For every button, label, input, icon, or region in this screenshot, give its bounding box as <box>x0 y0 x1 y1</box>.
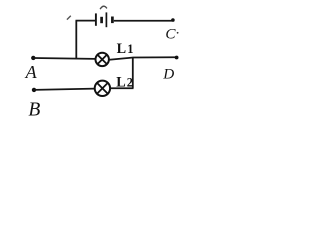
svg-text:L1: L1 <box>117 41 134 57</box>
battery plate: short thick plate 4 <box>111 17 114 24</box>
svg-text:B: B <box>28 99 40 120</box>
small arc mark above battery <box>100 6 107 9</box>
battery plate: short thick plate 2 <box>100 17 103 23</box>
svg-text:D: D <box>162 66 174 83</box>
small dot after C <box>177 32 179 34</box>
wire: battery branch vertical from node on A-wire up to battery <box>75 21 77 59</box>
wire: battery to terminal C <box>114 20 174 22</box>
wire: B to lamp L2 <box>34 89 95 90</box>
terminal dot C <box>171 18 175 22</box>
wire: battery branch horizontal to battery left plate <box>76 20 96 22</box>
wire: lamp L2 to junction <box>110 87 133 89</box>
terminal dot A <box>31 56 35 60</box>
small diagonal tick mark left of battery <box>67 16 71 20</box>
svg-text:A: A <box>25 62 38 82</box>
svg-text:C: C <box>165 26 176 43</box>
lamp L2 <box>95 81 110 96</box>
wire: junction vertical from L1-D wire down to L2 wire <box>132 58 134 89</box>
terminal dot D <box>175 56 179 60</box>
wire: A to lamp L1 <box>33 57 95 60</box>
battery plate: long plate 3 <box>105 12 107 27</box>
terminal dot B <box>32 88 36 92</box>
wire: lamp L1 to terminal D <box>109 57 175 60</box>
battery (two cells) plate: long plate 1 <box>95 13 97 25</box>
lamp L1 <box>96 53 109 66</box>
